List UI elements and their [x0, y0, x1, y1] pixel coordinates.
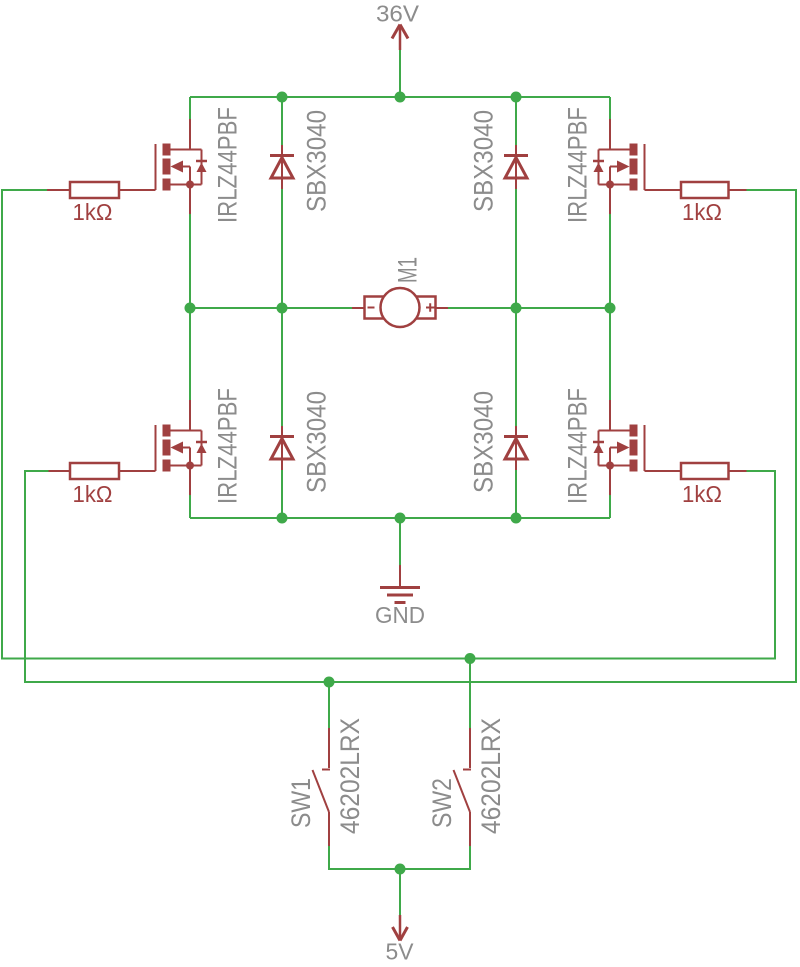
svg-text:IRLZ44PBF: IRLZ44PBF: [213, 107, 243, 223]
wire Q2 source to middle rail: [609, 214, 611, 308]
resistor R4 1k bottom-right: [652, 463, 747, 507]
switch SW2 46202LRX: [427, 718, 506, 846]
svg-text:SBX3040: SBX3040: [469, 391, 499, 493]
wire D1 vertical: [281, 97, 283, 308]
diode D2 SBX3040 top-right: [469, 110, 529, 212]
wire Q4 source to bottom rail: [609, 495, 611, 518]
junction dot top rail 36V: [395, 92, 406, 103]
diode D4 SBX3040 bottom-right: [469, 391, 529, 493]
svg-text:1kΩ: 1kΩ: [73, 199, 113, 225]
wire SW1 bottom: [329, 846, 400, 869]
n-mosfet Q4 IRLZ44PBF bottom-right: [563, 388, 653, 504]
wire 5V stem: [399, 869, 401, 915]
wire 36V stem: [399, 50, 401, 97]
resistor R3 1k bottom-left: [49, 463, 149, 507]
wire D4 vertical: [515, 308, 517, 518]
junction dot SW2 net: [465, 653, 476, 664]
junction dot SW1 net: [324, 677, 335, 688]
junction dot middle rail left diode: [277, 303, 288, 314]
n-mosfet Q1 IRLZ44PBF top-left: [148, 107, 243, 223]
svg-text:M1: M1: [393, 257, 423, 283]
wire middle rail motor net: [190, 307, 610, 309]
junction dot bottom rail right diode: [511, 513, 522, 524]
junction dot middle rail left: [185, 303, 196, 314]
ground GND: [375, 565, 425, 628]
resistor R2 1k top-right: [652, 182, 747, 225]
wire Q3 drain: [189, 308, 191, 400]
wire gate net B left loop: [25, 190, 796, 682]
wire SW2 top: [469, 659, 471, 729]
svg-text:1kΩ: 1kΩ: [682, 481, 722, 507]
svg-text:1kΩ: 1kΩ: [73, 481, 113, 507]
svg-text:46202LRX: 46202LRX: [335, 718, 365, 834]
power flag 5V: [386, 915, 415, 965]
wire gate net A left loop: [2, 190, 775, 659]
wire Q2 drain: [609, 97, 611, 119]
motor M1: [352, 257, 448, 327]
junction dot top rail left diode: [277, 92, 288, 103]
svg-text:1kΩ: 1kΩ: [682, 199, 722, 225]
n-mosfet Q2 IRLZ44PBF top-right: [563, 107, 653, 223]
wire D3 vertical: [281, 308, 283, 518]
junction dot middle rail right diode: [511, 303, 522, 314]
wire Q4 drain: [609, 308, 611, 400]
junction dot bottom rail left diode: [277, 513, 288, 524]
svg-text:IRLZ44PBF: IRLZ44PBF: [563, 388, 593, 504]
switch SW1 46202LRX: [286, 718, 365, 846]
junction dot 5V node: [395, 864, 406, 875]
wire Q3 source to bottom rail: [189, 495, 191, 518]
wire Q1 drain: [189, 97, 191, 119]
junction dot bottom rail GND: [395, 513, 406, 524]
junction dot top rail right diode: [511, 92, 522, 103]
svg-text:SBX3040: SBX3040: [302, 391, 332, 493]
diode D1 SBX3040 top-left: [270, 110, 332, 212]
wire GND stem: [399, 518, 401, 565]
wire SW1 top: [328, 682, 330, 728]
svg-text:36V: 36V: [376, 1, 420, 27]
svg-text:46202LRX: 46202LRX: [476, 718, 506, 834]
junction dot middle rail right: [605, 303, 616, 314]
svg-text:5V: 5V: [386, 939, 415, 965]
wire top rail 36V net: [190, 96, 610, 98]
wire D2 vertical: [515, 97, 517, 308]
wire Q1 source to middle rail: [189, 214, 191, 308]
n-mosfet Q3 IRLZ44PBF bottom-left: [148, 388, 243, 504]
wire SW2 bottom: [400, 846, 470, 869]
wire bottom rail GND net: [190, 517, 610, 519]
diode D3 SBX3040 bottom-left: [270, 391, 332, 493]
svg-text:IRLZ44PBF: IRLZ44PBF: [563, 107, 593, 223]
svg-text:SW2: SW2: [427, 778, 457, 828]
svg-text:SBX3040: SBX3040: [302, 110, 332, 212]
resistor R1 1k top-left: [47, 182, 148, 225]
svg-text:GND: GND: [375, 602, 425, 628]
svg-text:IRLZ44PBF: IRLZ44PBF: [213, 388, 243, 504]
svg-text:SBX3040: SBX3040: [469, 110, 499, 212]
svg-text:SW1: SW1: [286, 778, 316, 828]
power flag 36V: [376, 1, 420, 51]
